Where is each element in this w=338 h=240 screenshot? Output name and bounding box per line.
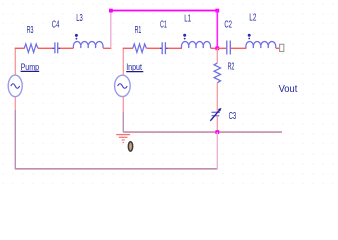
wire: magenta drop x=217.2 xyxy=(216,11,218,49)
node: junction dot left top xyxy=(109,9,113,13)
wire: Pump source vertical lead x=15 xyxy=(14,48,16,110)
inductor L2 xyxy=(246,42,276,48)
polarity marker of L2 xyxy=(248,34,251,40)
wire: top rail (magenta) xyxy=(111,10,218,12)
wire: main line Pump branch segment to R3 xyxy=(15,47,25,49)
svg-text:R3: R3 xyxy=(27,24,34,36)
ground name 0 xyxy=(128,142,132,151)
svg-text:R1: R1 xyxy=(135,24,142,36)
polarity marker of L3 xyxy=(75,34,78,40)
wire: Input source vertical lead x=123.3 xyxy=(122,48,124,97)
label Input xyxy=(126,62,143,72)
inductor L3 xyxy=(73,42,103,48)
wire: C2 to L2 xyxy=(231,47,247,49)
svg-text:L2: L2 xyxy=(249,12,256,24)
resistor R3 xyxy=(24,44,38,52)
svg-text:R2: R2 xyxy=(228,61,235,73)
wire: R1 to C1 xyxy=(146,47,160,49)
svg-text:L1: L1 xyxy=(184,13,191,25)
resistor R1 xyxy=(133,44,147,52)
resistor R2 xyxy=(214,63,220,83)
svg-text:Vout: Vout xyxy=(279,84,298,95)
wire: L3 to riser xyxy=(103,47,111,49)
wire: corner to R1 xyxy=(123,47,133,49)
node: junction dot right top xyxy=(215,9,219,13)
wire: C3 to ground rail xyxy=(216,116,218,133)
svg-text:Pump: Pump xyxy=(21,62,39,72)
svg-text:C2: C2 xyxy=(224,19,232,31)
capacitor C2 xyxy=(227,41,231,55)
wire: R3 to C4 xyxy=(38,47,53,49)
wire: C1 to L1 xyxy=(168,47,183,49)
svg-text:C1: C1 xyxy=(160,19,167,31)
wire: riser x=110.8 up to top rail xyxy=(110,11,112,49)
svg-text:L3: L3 xyxy=(76,12,83,24)
ground symbol (0) xyxy=(116,135,130,143)
wire: bottom return rail y=168.5 xyxy=(15,168,218,170)
node: junction dot on ground rail xyxy=(215,130,219,134)
capacitor C4 xyxy=(53,42,61,53)
port: output terminal square xyxy=(280,44,284,51)
capacitor C1 xyxy=(160,42,168,54)
wire: node down to R2 xyxy=(216,48,218,63)
node: center junction dot xyxy=(215,46,219,50)
svg-text:Input: Input xyxy=(126,62,142,72)
source Pump (sine source symbol) xyxy=(8,75,22,97)
polarity marker of L1 xyxy=(183,34,186,40)
label Pump xyxy=(21,62,40,72)
svg-text:C4: C4 xyxy=(52,18,60,30)
source Input (sine source symbol) xyxy=(115,75,131,96)
capacitor C3 (variable, with arrow) xyxy=(210,108,221,121)
wire: L2 to port xyxy=(276,47,280,49)
wire: C4 to L3 xyxy=(60,47,74,49)
wire: L1 to node xyxy=(211,47,218,49)
inductor L1 xyxy=(181,42,210,48)
wire: node to C2 xyxy=(217,47,226,49)
svg-text:C3: C3 xyxy=(229,110,237,122)
wire: drop from ground rail to bottom rail xyxy=(216,132,218,169)
wire: ground rail y=131.6 xyxy=(123,131,282,133)
wire: Input ground drop to ground xyxy=(122,97,124,112)
wire: R2 to C3 xyxy=(216,83,218,112)
